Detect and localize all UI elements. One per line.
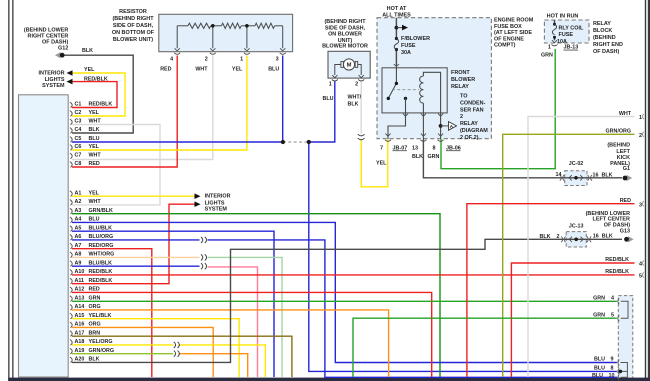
svg-text:ALL TIMES: ALL TIMES xyxy=(382,13,411,19)
svg-text:16: 16 xyxy=(593,234,599,240)
svg-text:YEL/BLK: YEL/BLK xyxy=(89,313,112,319)
engine room fuse box (dashed) xyxy=(377,18,491,139)
svg-text:GRN: GRN xyxy=(89,295,101,301)
svg-text:JB-13: JB-13 xyxy=(564,45,579,51)
svg-text:F/BLOWER: F/BLOWER xyxy=(401,36,430,42)
svg-text:7: 7 xyxy=(380,145,383,151)
svg-text:FUSE: FUSE xyxy=(401,43,416,49)
svg-text:A7: A7 xyxy=(75,243,82,249)
wire WHT C7 to resistor pin 2 xyxy=(72,56,213,160)
wire WHT/ORG A8 left segment xyxy=(72,256,200,258)
svg-text:RELAY: RELAY xyxy=(460,121,478,127)
wire GRN/ORG down to border pin 2 xyxy=(503,134,635,377)
svg-text:1: 1 xyxy=(639,115,642,121)
svg-text:RLY COIL: RLY COIL xyxy=(559,26,584,32)
svg-text:YEL: YEL xyxy=(89,190,100,196)
rly fuse bottom pin xyxy=(552,40,557,43)
svg-text:(BEHIND: (BEHIND xyxy=(593,35,616,41)
resistor element chain xyxy=(177,25,188,27)
svg-text:OF DASH): OF DASH) xyxy=(593,49,619,55)
jumper BLU pins 9-8-10 xyxy=(621,363,628,378)
svg-text:ORG: ORG xyxy=(89,322,101,328)
svg-text:ORG: ORG xyxy=(89,304,101,310)
svg-text:5: 5 xyxy=(611,312,614,318)
svg-text:1: 1 xyxy=(548,45,551,51)
svg-text:A20: A20 xyxy=(75,357,85,363)
svg-text:A11: A11 xyxy=(75,278,85,284)
svg-text:(BEHIND RIGHT: (BEHIND RIGHT xyxy=(324,19,366,25)
svg-text:YEL: YEL xyxy=(89,144,100,150)
svg-text:RED/BLK: RED/BLK xyxy=(89,269,113,275)
svg-text:TO: TO xyxy=(460,94,467,100)
relay top pin xyxy=(394,64,399,65)
svg-text:A19: A19 xyxy=(75,348,85,354)
resistor bottom pin arrows xyxy=(175,48,180,51)
relay dashed actuator link xyxy=(392,89,419,91)
svg-text:A4: A4 xyxy=(75,217,82,223)
svg-text:BLU: BLU xyxy=(268,67,279,73)
blower motor box xyxy=(328,51,370,78)
svg-text:RESISTOR: RESISTOR xyxy=(119,9,147,15)
svg-text:FRONT: FRONT xyxy=(451,70,470,76)
inline connector on A18 xyxy=(174,342,180,348)
svg-text:INTERIOR: INTERIOR xyxy=(205,194,231,200)
wire PNK A9 after connector down at x=257.5 xyxy=(208,267,258,377)
svg-text:SIDE OF DASH,: SIDE OF DASH, xyxy=(113,23,154,29)
svg-text:FUSE BOX: FUSE BOX xyxy=(494,24,522,30)
svg-text:A10: A10 xyxy=(75,269,85,275)
svg-text:GRN: GRN xyxy=(593,295,605,301)
svg-text:GRN/ORG: GRN/ORG xyxy=(605,129,631,135)
svg-text:A8: A8 xyxy=(75,252,82,258)
svg-text:2: 2 xyxy=(460,114,463,120)
wire BLU splice to blower motor pin 1 xyxy=(309,81,335,143)
svg-text:BLK: BLK xyxy=(540,234,551,240)
svg-text:10: 10 xyxy=(608,373,614,379)
svg-text:A15: A15 xyxy=(75,313,85,319)
svg-text:4: 4 xyxy=(611,295,614,301)
wire RED/BLK interior-lights to C1 xyxy=(72,82,117,108)
arrow feed to right xyxy=(396,27,402,29)
svg-text:WHT: WHT xyxy=(619,111,632,117)
wire RED/BLK A10 to border pin 5 xyxy=(72,274,635,276)
svg-text:RED/BLK: RED/BLK xyxy=(89,278,113,284)
wire RED/BLK A11 to interior lights arrow xyxy=(72,204,195,283)
svg-text:BLU/ORG: BLU/ORG xyxy=(89,234,114,240)
relay coil bottom to pin 13 xyxy=(422,103,424,113)
svg-text:YEL: YEL xyxy=(376,160,387,166)
svg-text:BLU: BLU xyxy=(592,373,603,379)
svg-text:YEL/ORG: YEL/ORG xyxy=(89,339,113,345)
connector pins A1-A20 xyxy=(70,191,72,197)
fuse F/BLOWER 30A symbol xyxy=(395,37,398,40)
svg-text:GRN/BLK: GRN/BLK xyxy=(89,208,113,214)
wire GRN/BLK A3 down at x=440 xyxy=(72,214,440,377)
svg-text:CONDEN-: CONDEN- xyxy=(460,100,486,106)
inline connector WHT/BLK-YEL break xyxy=(358,134,365,140)
wire GRN A13 to right connector pin 4 xyxy=(72,300,617,302)
svg-text:BLU: BLU xyxy=(594,365,605,371)
svg-text:OF ENGINE: OF ENGINE xyxy=(494,36,524,42)
wire WHT C3 down to A2 xyxy=(72,125,160,205)
svg-text:2: 2 xyxy=(639,133,642,139)
svg-text:A1: A1 xyxy=(75,190,82,196)
border pin brackets xyxy=(642,114,643,119)
wire RED/BLK border pin 4 xyxy=(511,263,634,377)
svg-text:GRN: GRN xyxy=(593,312,605,318)
svg-text:C7: C7 xyxy=(75,153,82,159)
svg-text:RIGHT END: RIGHT END xyxy=(593,42,623,48)
ground G12 xyxy=(55,52,61,58)
svg-text:SYSTEM: SYSTEM xyxy=(42,83,65,89)
svg-text:WHT: WHT xyxy=(89,119,102,125)
svg-text:A: A xyxy=(450,124,454,130)
arrow interior lights (top YEL) xyxy=(67,70,73,76)
svg-text:A14: A14 xyxy=(75,304,85,310)
wire relay switch out to fuse box pin 7 xyxy=(388,113,406,139)
wire BLU/ORG A6 left segment xyxy=(72,239,200,241)
front blower relay box xyxy=(382,68,447,113)
svg-text:2: 2 xyxy=(355,82,358,88)
svg-text:LEFT: LEFT xyxy=(616,149,630,155)
inline connector on A8 xyxy=(201,254,207,260)
svg-text:(BEHIND LOWER: (BEHIND LOWER xyxy=(24,28,68,34)
svg-text:HOT AT: HOT AT xyxy=(387,6,407,12)
svg-text:5: 5 xyxy=(639,274,642,280)
svg-text:BLK: BLK xyxy=(89,127,100,133)
junction dot to condenser fan relay xyxy=(439,124,443,128)
svg-text:RED: RED xyxy=(89,287,100,293)
svg-text:1: 1 xyxy=(329,82,332,88)
svg-text:C3: C3 xyxy=(75,119,82,125)
svg-text:JC-02: JC-02 xyxy=(569,161,584,167)
wire YEL/BLK A15 down at x=239.1 xyxy=(72,319,239,377)
page border right xyxy=(645,0,646,381)
motor symbol xyxy=(343,59,354,70)
svg-text:13: 13 xyxy=(412,145,418,151)
svg-text:(BEHIND RIGHT: (BEHIND RIGHT xyxy=(112,16,154,22)
relay switch output xyxy=(404,97,407,100)
connector JC-13 internals xyxy=(574,238,578,242)
svg-text:COMPT): COMPT) xyxy=(494,43,516,49)
svg-text:WHT: WHT xyxy=(89,199,102,205)
svg-text:SER FAN: SER FAN xyxy=(460,107,484,113)
svg-text:4: 4 xyxy=(170,56,173,62)
svg-text:WHT: WHT xyxy=(89,153,102,159)
svg-text:SYSTEM: SYSTEM xyxy=(205,207,228,213)
svg-text:BLK: BLK xyxy=(89,357,100,363)
svg-text:9: 9 xyxy=(610,356,613,362)
svg-text:YEL: YEL xyxy=(84,67,95,73)
resistor chain junction dots xyxy=(211,24,215,28)
svg-text:(BEHIND: (BEHIND xyxy=(607,143,630,149)
svg-text:RED: RED xyxy=(89,161,100,167)
page border left xyxy=(8,0,9,381)
svg-text:RED: RED xyxy=(620,198,631,204)
svg-text:A12: A12 xyxy=(75,287,85,293)
svg-text:14: 14 xyxy=(556,172,562,178)
junction dot fuse feed xyxy=(395,26,399,30)
wire RED border pin 3 xyxy=(467,204,635,377)
right connector pin brackets xyxy=(618,298,620,304)
wire GRN/ORG A19 left segment xyxy=(72,353,173,355)
svg-text:2: 2 xyxy=(557,234,560,240)
wire YEL C6 to resistor pin 1 xyxy=(72,56,247,151)
svg-text:SIDE OF DASH,: SIDE OF DASH, xyxy=(325,25,366,31)
relay coil xyxy=(420,76,424,103)
wire ORG A19 after connector down at x=247.7 xyxy=(179,354,248,377)
junction dot splice C5/motor drop xyxy=(307,140,311,144)
wire BLU/BLK A9 left segment xyxy=(72,265,200,267)
svg-text:30A: 30A xyxy=(401,50,411,56)
svg-text:3: 3 xyxy=(639,202,642,208)
wire ORG A14 down at x=388.6 xyxy=(72,310,389,377)
svg-text:A5: A5 xyxy=(75,225,82,231)
svg-text:RED/BLK: RED/BLK xyxy=(605,269,629,275)
junction dot splice C5/resistor xyxy=(281,140,285,144)
inline connector on A6 xyxy=(201,237,207,243)
svg-text:BLU/BLK: BLU/BLK xyxy=(89,225,113,231)
arrow interior lights (mid YEL A1) xyxy=(195,193,201,199)
wire WHT down to border pin 1 xyxy=(528,117,635,378)
svg-text:BLOCK: BLOCK xyxy=(593,28,612,34)
ground G1 xyxy=(627,175,633,181)
svg-text:16: 16 xyxy=(593,172,599,178)
right-edge connector (dashed) xyxy=(618,296,633,379)
wire BRN A17 down at x=291.9 xyxy=(72,336,292,377)
svg-text:(AT LEFT SIDE: (AT LEFT SIDE xyxy=(494,30,532,36)
relay pin arrows at box bottom xyxy=(403,114,408,117)
svg-text:G13: G13 xyxy=(620,228,630,234)
relay coil top link to pin 8 xyxy=(423,72,440,113)
svg-text:KICK: KICK xyxy=(617,155,630,161)
wire GRN fuse box pin 8 to JB-13 xyxy=(441,49,555,169)
svg-text:YEL: YEL xyxy=(232,67,243,73)
wire BLK fuse box pin 13 to JC-02 / G1 xyxy=(423,139,622,178)
svg-text:2: 2 xyxy=(205,56,208,62)
svg-text:LIGHTS: LIGHTS xyxy=(205,200,225,206)
svg-text:YEL: YEL xyxy=(89,110,100,116)
svg-text:ON BOTTOM OF: ON BOTTOM OF xyxy=(112,30,155,36)
svg-text:BLU: BLU xyxy=(89,136,100,142)
svg-text:A2: A2 xyxy=(75,199,82,205)
wire BLU splice down to right connector pin 8 xyxy=(309,142,617,371)
svg-text:C4: C4 xyxy=(75,127,82,133)
wire YEL interior-lights to C2 xyxy=(72,73,125,116)
svg-text:ENGINE ROOM: ENGINE ROOM xyxy=(494,18,534,24)
svg-text:GRN: GRN xyxy=(541,53,553,59)
svg-text:A17: A17 xyxy=(75,330,85,336)
svg-text:A13: A13 xyxy=(75,295,85,301)
wire YEL/ORG A18 left segment xyxy=(72,344,173,346)
svg-text:4: 4 xyxy=(639,262,642,268)
svg-text:BRN: BRN xyxy=(89,330,101,336)
motor pin arrows xyxy=(332,75,337,78)
wire WHT/BLK blower motor pin 2 xyxy=(360,81,362,134)
svg-text:BLK: BLK xyxy=(602,172,613,178)
wire RED C8 to resistor pin 4 xyxy=(72,56,177,168)
svg-text:G1: G1 xyxy=(623,166,630,172)
arrow interior lights (top RED/BLK) xyxy=(67,79,73,85)
wire GRN right connector pin 5 xyxy=(353,318,617,377)
svg-text:BLOWER MOTOR: BLOWER MOTOR xyxy=(322,43,368,49)
wire BLU A4 to right connector pin 9 xyxy=(72,222,617,362)
svg-text:BLK: BLK xyxy=(348,101,359,107)
svg-text:RED/BLK: RED/BLK xyxy=(89,102,113,108)
svg-text:(DIAGRAM: (DIAGRAM xyxy=(460,128,488,134)
wire BLU resistor pin 3 drop xyxy=(282,56,284,143)
connector block A/C-heater control (left) xyxy=(19,95,69,377)
svg-text:RELAY: RELAY xyxy=(593,21,611,27)
svg-text:WHT: WHT xyxy=(195,67,208,73)
svg-text:M: M xyxy=(347,63,352,69)
svg-text:ON BLOWER: ON BLOWER xyxy=(328,32,362,38)
relay switch xyxy=(388,68,396,99)
svg-text:C1: C1 xyxy=(75,102,82,108)
triangle A to condenser fan 2 relay xyxy=(441,125,448,127)
svg-text:C5: C5 xyxy=(75,136,82,142)
splice dashed link xyxy=(283,141,309,143)
svg-text:RED/BLK: RED/BLK xyxy=(84,76,108,82)
wire YEL inline connector to fuse box pin 7 xyxy=(361,139,388,187)
motor leads xyxy=(335,65,361,76)
svg-text:RED/BLK: RED/BLK xyxy=(605,257,629,263)
svg-text:A18: A18 xyxy=(75,339,85,345)
svg-text:WHT/: WHT/ xyxy=(348,95,362,101)
wire BLU A6 after connector to right connector pin 10 xyxy=(208,240,617,377)
svg-text:RED/ORG: RED/ORG xyxy=(89,243,114,249)
svg-text:RED: RED xyxy=(160,67,171,73)
wire BLU C5 to splice xyxy=(72,141,283,143)
wire relay pins down to fuse box edge xyxy=(423,113,440,139)
svg-text:BLU: BLU xyxy=(594,356,605,362)
svg-text:GRN/ORG: GRN/ORG xyxy=(89,348,115,354)
fuse RLY COIL 10A symbol xyxy=(553,23,556,26)
bottom page bar xyxy=(8,378,650,381)
svg-text:BLOWER: BLOWER xyxy=(451,77,475,83)
jumper GRN pins 4-5 xyxy=(621,301,628,318)
svg-text:BLK: BLK xyxy=(602,234,613,240)
svg-text:LIGHTS: LIGHTS xyxy=(45,77,65,83)
svg-text:C8: C8 xyxy=(75,161,82,167)
wire LT GRN A8 after connector down at x=282 xyxy=(208,257,283,377)
svg-text:BLU: BLU xyxy=(89,217,100,223)
svg-text:BLU/BLK: BLU/BLK xyxy=(89,260,113,266)
svg-text:A6: A6 xyxy=(75,234,82,240)
connector JC-02 internals xyxy=(574,176,578,180)
wire BLK from G12 to C4 xyxy=(65,55,134,133)
svg-text:BLU: BLU xyxy=(323,96,334,102)
resistor block xyxy=(159,14,293,51)
svg-text:JC-13: JC-13 xyxy=(569,223,584,229)
svg-text:1: 1 xyxy=(240,56,243,62)
svg-text:FUSE: FUSE xyxy=(559,32,574,38)
rly coil fuse wire xyxy=(554,20,556,40)
svg-text:A9: A9 xyxy=(75,260,82,266)
svg-text:GRN: GRN xyxy=(428,154,440,160)
svg-text:2 OF 2): 2 OF 2) xyxy=(460,135,479,141)
svg-text:BLK: BLK xyxy=(412,154,423,160)
svg-text:G12: G12 xyxy=(58,45,68,51)
fuse box bottom pin brackets xyxy=(385,134,390,137)
wire YEL A18 after connector down at x=265.4 xyxy=(179,345,266,377)
motor pin brackets xyxy=(332,80,364,82)
inline connector on A19 xyxy=(174,351,180,357)
connector JC-13 box xyxy=(566,232,586,247)
svg-text:8: 8 xyxy=(610,365,613,371)
connector JC-02 box xyxy=(565,171,587,186)
svg-text:INTERIOR: INTERIOR xyxy=(39,71,65,77)
relay block RLY COIL FUSE box (dashed) xyxy=(544,20,589,43)
wire fused B+ vertical in fuse box xyxy=(395,18,397,68)
ground G13 xyxy=(628,236,634,242)
arrow interior lights (mid RED/BLK A11) xyxy=(195,201,201,207)
connector pins C1-C8 xyxy=(70,102,72,108)
svg-text:A16: A16 xyxy=(75,322,85,328)
svg-text:C2: C2 xyxy=(75,110,82,116)
svg-text:HOT IN RUN: HOT IN RUN xyxy=(547,14,579,20)
inline connector on A9 xyxy=(201,263,207,269)
wire BLK A20 up and to JC-13 / G13 xyxy=(72,239,622,362)
resistor tap drops xyxy=(177,26,283,49)
wire RED A12 down at x=431.7 xyxy=(72,292,432,377)
svg-text:C6: C6 xyxy=(75,144,82,150)
svg-text:A3: A3 xyxy=(75,208,82,214)
wire BLU/BLK A5 down at x=274 xyxy=(72,231,274,377)
svg-text:BLK: BLK xyxy=(82,48,93,54)
svg-text:8: 8 xyxy=(432,145,435,151)
wire YEL A1 to interior lights arrow xyxy=(72,195,195,197)
svg-text:WHT/ORG: WHT/ORG xyxy=(89,252,115,258)
svg-text:BLOWER UNIT): BLOWER UNIT) xyxy=(113,37,153,43)
svg-text:RELAY: RELAY xyxy=(451,84,469,90)
wire ORG A16 down at x=213.2 xyxy=(72,327,213,377)
svg-text:3: 3 xyxy=(276,56,279,62)
wire RED/ORG A7 down at x=151.8 xyxy=(72,249,152,377)
